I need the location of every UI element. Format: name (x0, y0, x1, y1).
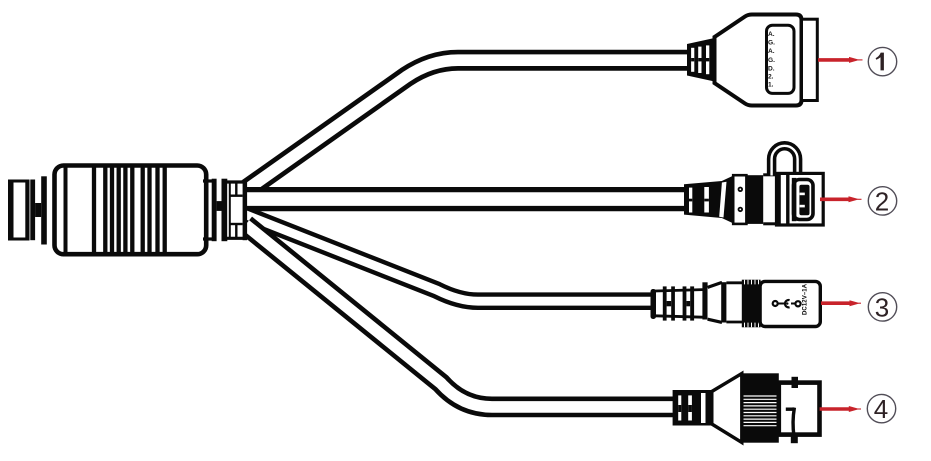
connector 1 label plate (767, 25, 795, 93)
right groove (H) (212, 179, 228, 242)
svg-text:4: 4 (874, 394, 888, 424)
connector 2 crimp (black with slots) (684, 175, 734, 223)
connector 1 pin labels (768, 31, 775, 89)
connector 1 body (alarm I/O block) (715, 15, 802, 106)
cable 1 (to alarm I/O) (246, 60, 689, 190)
connector 3 ferrule box (655, 290, 703, 318)
svg-text:DC12V–1A: DC12V–1A (803, 283, 809, 315)
connector 3 ferrule cap (651, 289, 657, 319)
connector 3 plug body (760, 281, 820, 326)
svg-text:A.: A. (768, 31, 775, 38)
connector 4 bayonet slot (786, 408, 795, 437)
connector 2 cap loop (772, 146, 798, 176)
connector 2 socket housing (776, 173, 824, 226)
connector 4 bayonet pins (791, 377, 798, 443)
connector 3 white band (726, 283, 742, 322)
neck to right groove (203, 181, 212, 239)
connector 4 knurled cylinder (742, 373, 779, 442)
connector 4 cone (712, 374, 742, 443)
connector 3 polarity symbol (773, 300, 801, 307)
connector 3 cone (708, 281, 722, 324)
connector 2 white band (763, 175, 776, 224)
connector 2 black band (746, 175, 763, 224)
svg-text:2.: 2. (768, 74, 774, 81)
red arrow 2 (820, 196, 862, 202)
main connector tip block (8, 180, 28, 240)
cable 2 (to network port) (246, 187, 687, 211)
connector 3 boundary ring (721, 282, 726, 322)
svg-text:D.: D. (768, 65, 775, 72)
red arrow 1 (818, 57, 863, 63)
connector 3 ferrule H grooves (663, 286, 694, 320)
boot (cable exit) (227, 180, 247, 241)
svg-text:3: 3 (875, 292, 889, 322)
svg-text:A.: A. (768, 48, 775, 55)
connector 4 BNC barrel (779, 383, 820, 435)
red arrow 4 (820, 406, 861, 412)
connector 2 RJ45 jack (792, 178, 813, 221)
svg-text:G.: G. (768, 40, 775, 47)
label circle 1 (868, 47, 896, 75)
cable 4 (to BNC video) (246, 225, 677, 407)
connector 4 crimp (673, 390, 712, 426)
connector 3 knurled ring (742, 280, 761, 328)
connector 1 crimp (687, 38, 715, 82)
main connector left groove (H) (30, 176, 47, 244)
svg-text:2: 2 (875, 186, 889, 216)
label circle 3 (868, 292, 896, 322)
barrel ribs (94, 166, 165, 254)
red arrow 3 (821, 300, 861, 306)
svg-text:1.: 1. (768, 82, 774, 89)
connector 3 step bar (702, 282, 707, 319)
cable 3 (to DC power plug) (246, 215, 655, 302)
label circle 4 (867, 394, 895, 424)
svg-text:G.: G. (768, 57, 775, 64)
main connector barrel (55, 166, 207, 255)
label circle 2 (868, 186, 896, 216)
connector 1 end cap (802, 19, 818, 100)
connector 2 body white section with screws (733, 175, 746, 224)
